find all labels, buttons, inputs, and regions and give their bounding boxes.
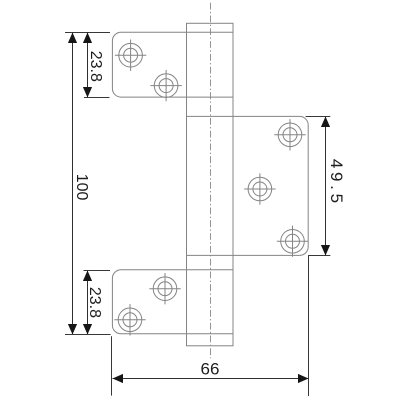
bottom-left hinge leaf outline — [112, 270, 233, 334]
extension line top-left (dim 23.8 / 100 top) — [65, 32, 110, 34]
arrow up (dim 100 top) — [68, 33, 77, 44]
arrow up (dim 23.8 bottom, upper) — [83, 271, 92, 282]
dimension line 23.8 top — [87, 33, 89, 98]
extension line bottom-left (dim 23.8 / 100 bottom) — [65, 334, 111, 336]
top-left hinge leaf outline — [112, 32, 233, 97]
dimension line 100 — [72, 33, 74, 335]
extension line right-bottom (dim 49.5) — [308, 255, 330, 257]
svg-text:49.5: 49.5 — [327, 159, 346, 207]
arrow up (dim 23.8 top, upper) — [83, 33, 92, 44]
dimension line 49.5 — [325, 117, 327, 256]
screw hole H2 (top-left leaf, lower) — [150, 70, 181, 101]
svg-text:66: 66 — [201, 359, 220, 378]
arrow right (dim 66 right) — [298, 374, 309, 383]
right hinge leaf outline — [187, 116, 309, 255]
arrow left (dim 66 left) — [113, 374, 124, 383]
screw hole H6 (bottom-left leaf, upper) — [149, 273, 180, 304]
dimension line 23.8 bottom — [87, 271, 89, 335]
extension line vertical right (dim 66) — [308, 256, 310, 397]
extension line at bottom leaf top edge — [84, 270, 111, 272]
arrow down (dim 100 bottom) — [68, 324, 77, 335]
arrow down (dim 49.5 bottom) — [321, 245, 330, 256]
svg-text:23.8: 23.8 — [87, 51, 104, 82]
arrow down (dim 23.8 top, lower) — [83, 87, 92, 98]
dimension line 66 — [113, 378, 309, 380]
screw hole H3 (right leaf, top) — [274, 119, 305, 150]
extension line right-top (dim 49.5) — [306, 116, 331, 118]
centerline of barrel (dash-dot) — [210, 3, 212, 359]
screw hole H7 (bottom-left leaf, lower) — [114, 304, 145, 335]
screw hole H5 (right leaf, bottom) — [277, 226, 308, 257]
svg-text:23.8: 23.8 — [86, 287, 103, 318]
svg-text:100: 100 — [73, 174, 90, 201]
hinge barrel (knuckle) outline — [187, 23, 234, 346]
arrow up (dim 49.5 top) — [321, 117, 330, 128]
screw hole H1 (top-left leaf, upper) — [115, 40, 146, 71]
extension line at top leaf bottom edge — [84, 97, 110, 99]
screw hole H4 (right leaf, middle) — [244, 173, 275, 204]
arrow down (dim 23.8 bottom, lower) — [83, 324, 92, 335]
extension line vertical left (dim 66) — [111, 336, 113, 395]
